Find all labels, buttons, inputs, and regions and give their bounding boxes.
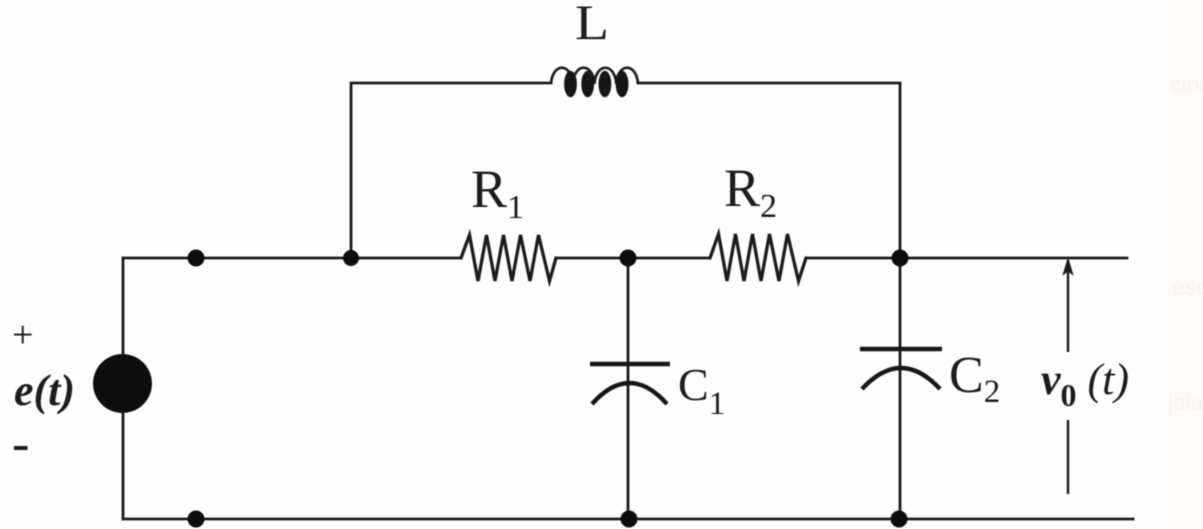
svg-text:jala: jala — [1167, 389, 1203, 415]
svg-text:cion: cion — [1170, 71, 1203, 97]
svg-text:eso: eso — [1172, 274, 1203, 300]
svg-text:e(t): e(t) — [14, 366, 75, 415]
svg-text:+: + — [12, 314, 33, 356]
svg-text:L: L — [575, 0, 609, 50]
